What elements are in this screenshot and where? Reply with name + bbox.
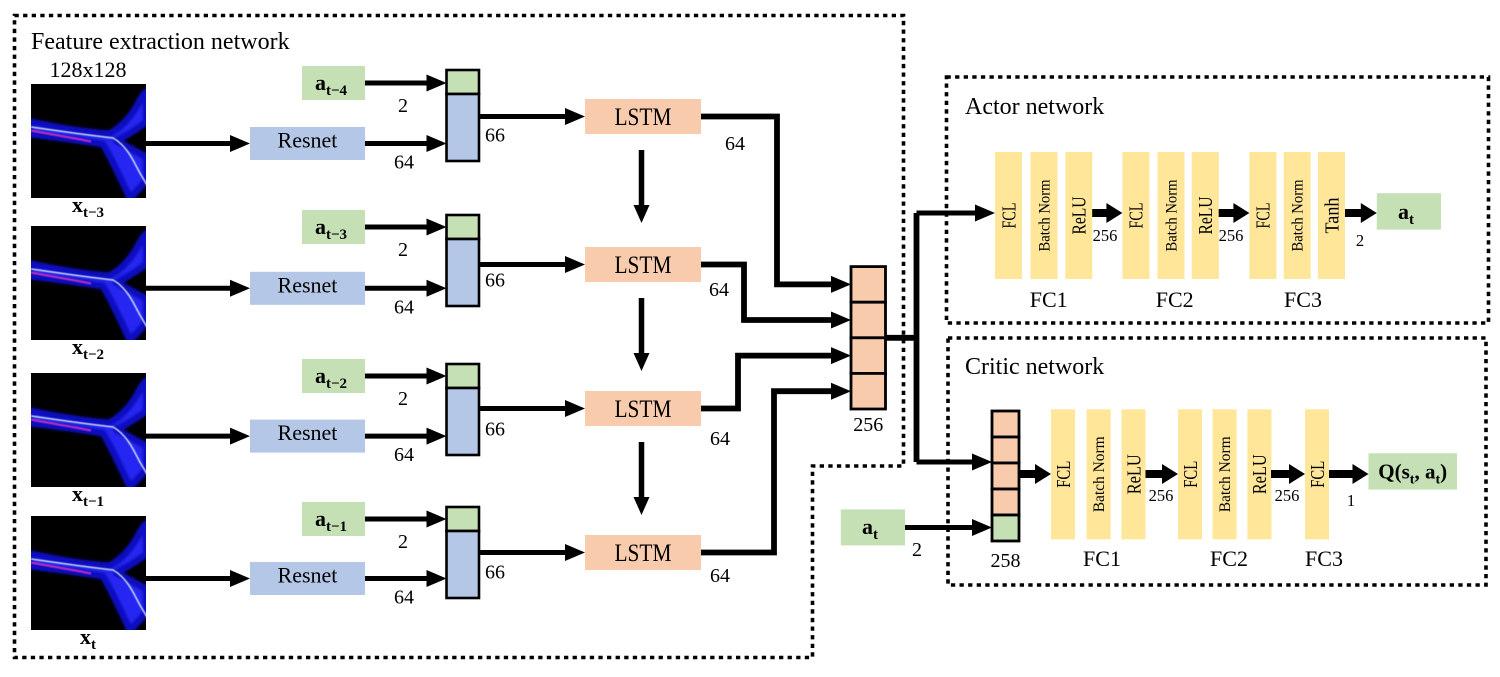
arrow a_t to critic stack green cell — [905, 519, 992, 536]
svg-text:258: 258 — [991, 550, 1021, 572]
svg-text:FCL: FCL — [1180, 461, 1202, 488]
critic layer bar 1 (FCL) — [1051, 409, 1075, 539]
dashed box: Critic network — [948, 338, 1486, 585]
box a_t-2 (green action input) — [302, 359, 365, 393]
box LSTM 4 — [585, 535, 701, 570]
svg-text:64: 64 — [394, 587, 414, 609]
svg-text:2: 2 — [398, 531, 408, 553]
wire LSTM 1 output to state stack cell 1 — [701, 117, 834, 285]
svg-text:2: 2 — [912, 539, 922, 561]
arrow LSTM 1 to LSTM 2 — [634, 150, 650, 223]
svg-text:128x128: 128x128 — [50, 57, 127, 82]
box a_t-1 (green action input) — [302, 502, 365, 536]
actor layer bar 9 (Tanh) — [1318, 152, 1345, 279]
arrow LSTM 2 to LSTM 3 — [634, 298, 650, 371]
box LSTM 3 — [585, 391, 701, 426]
actor layer bar 3 (ReLU) — [1065, 152, 1092, 279]
svg-text:Resnet: Resnet — [278, 128, 338, 153]
concat bar 2 (2+64=66 vector) — [447, 215, 480, 306]
svg-text:FCL: FCL — [1053, 461, 1075, 488]
state stack 256 (4 cells) — [851, 267, 886, 409]
arrow x_t to Resnet 4 — [146, 570, 250, 587]
svg-text:ReLU: ReLU — [1123, 454, 1145, 494]
svg-text:64: 64 — [725, 133, 745, 155]
svg-text:1: 1 — [1347, 491, 1355, 510]
arrow critic ReLU1 to FC2 — [1146, 464, 1179, 484]
svg-text:LSTM: LSTM — [615, 396, 672, 423]
critic layer bar 4 (FCL) — [1178, 409, 1202, 539]
input image x_t (128x128 vessel frame) — [31, 516, 147, 630]
dashed box: Feature extraction network (L-shaped outline) — [15, 16, 904, 658]
svg-text:Feature extraction network: Feature extraction network — [31, 29, 290, 55]
arrow critic stack to FC1 — [1019, 464, 1051, 484]
critic input stack 258 (4 orange + 1 green cells) — [992, 411, 1019, 541]
critic layer bar 3 (ReLU) — [1122, 409, 1146, 539]
actor layer bar 5 (Batch Norm) — [1158, 152, 1185, 279]
box Resnet 3 — [250, 420, 365, 453]
arrow concat bar 4 to LSTM 4 — [479, 544, 585, 561]
svg-text:256: 256 — [1149, 486, 1174, 505]
box a_t-4 (green action input) — [302, 66, 365, 100]
arrow Resnet 3 to concat bar 3 — [365, 428, 447, 445]
arrow a_t-3 to concat bar 2 — [365, 219, 447, 236]
arrow LSTM 3 to LSTM 4 — [634, 442, 650, 515]
svg-text:64: 64 — [709, 279, 729, 301]
actor layer bar 2 (Batch Norm) — [1031, 152, 1058, 279]
svg-text:66: 66 — [485, 419, 505, 441]
box Resnet 4 — [250, 562, 365, 595]
concat bar 1 (2+64=66 vector) — [447, 70, 480, 161]
svg-text:FC2: FC2 — [1210, 546, 1248, 571]
arrow critic ReLU2 to FC3 — [1271, 464, 1305, 484]
box LSTM 2 — [585, 247, 701, 282]
wire state stack to actor/critic branch — [886, 213, 917, 462]
svg-text:LSTM: LSTM — [615, 104, 672, 131]
dashed box: Actor network — [947, 77, 1489, 323]
input image x_t-3 (128x128 vessel frame) — [31, 84, 147, 198]
arrow actor ReLU2 to FC3 — [1219, 203, 1250, 223]
arrow a_t-2 to concat bar 3 — [365, 368, 447, 385]
arrow x_t-1 to Resnet 3 — [146, 428, 250, 445]
svg-text:FC1: FC1 — [1030, 287, 1068, 312]
actor layer bar 1 (FCL) — [995, 152, 1022, 279]
svg-text:Critic network: Critic network — [965, 354, 1104, 380]
actor layer bar 6 (ReLU) — [1192, 152, 1219, 279]
svg-text:FCL: FCL — [1307, 461, 1329, 488]
svg-text:Batch Norm: Batch Norm — [1163, 179, 1180, 252]
box a_t-3 (green action input) — [302, 210, 365, 244]
arrow concat bar 2 to LSTM 2 — [479, 256, 585, 273]
svg-text:LSTM: LSTM — [615, 540, 672, 567]
svg-text:Batch Norm: Batch Norm — [1217, 436, 1234, 513]
arrow a_t-1 to concat bar 4 — [365, 511, 447, 528]
critic layer bar 6 (ReLU) — [1247, 409, 1271, 539]
svg-text:Resnet: Resnet — [278, 563, 338, 588]
critic layer bar 2 (Batch Norm) — [1087, 409, 1111, 539]
svg-text:256: 256 — [1093, 226, 1118, 245]
box LSTM 1 — [585, 99, 701, 134]
actor layer bar 8 (Batch Norm) — [1284, 152, 1311, 279]
svg-text:2: 2 — [398, 239, 408, 261]
arrow critic FC3 to Q output — [1329, 464, 1369, 484]
svg-text:64: 64 — [394, 296, 414, 318]
box Q(s_t, a_t) (critic output, green) — [1369, 453, 1458, 489]
svg-text:Actor network: Actor network — [965, 94, 1104, 120]
svg-text:ReLU: ReLU — [1069, 196, 1091, 234]
input image x_t-2 (128x128 vessel frame) — [31, 226, 147, 340]
svg-text:66: 66 — [485, 562, 505, 584]
box Resnet 1 — [250, 127, 365, 160]
svg-text:ReLU: ReLU — [1195, 196, 1217, 234]
svg-text:64: 64 — [394, 152, 414, 174]
svg-text:64: 64 — [710, 428, 730, 450]
svg-text:Resnet: Resnet — [278, 420, 338, 445]
arrow Resnet 2 to concat bar 2 — [365, 280, 447, 297]
svg-text:Tanh: Tanh — [1321, 198, 1343, 234]
svg-text:2: 2 — [1356, 231, 1364, 250]
concat bar 4 (2+64=66 vector) — [447, 507, 480, 598]
critic layer bar 5 (Batch Norm) — [1213, 409, 1237, 539]
svg-text:256: 256 — [1275, 486, 1300, 505]
svg-text:66: 66 — [485, 125, 505, 147]
svg-text:FC2: FC2 — [1156, 287, 1194, 312]
box Resnet 2 — [250, 272, 365, 305]
box a_t (critic action input, green) — [841, 509, 905, 545]
svg-text:FC3: FC3 — [1305, 546, 1343, 571]
svg-text:2: 2 — [398, 388, 408, 410]
actor layer bar 7 (FCL) — [1249, 152, 1276, 279]
svg-text:Batch Norm: Batch Norm — [1036, 179, 1053, 252]
svg-text:FCL: FCL — [1253, 203, 1275, 229]
svg-text:256: 256 — [853, 414, 883, 436]
svg-text:64: 64 — [710, 565, 730, 587]
wire LSTM 3 output to state stack cell 3 — [701, 356, 834, 409]
wire LSTM 2 output to state stack cell 2 — [701, 265, 834, 321]
svg-text:2: 2 — [398, 95, 408, 117]
svg-text:64: 64 — [394, 444, 414, 466]
input image x_t-1 (128x128 vessel frame) — [31, 373, 147, 487]
arrow x_t-2 to Resnet 2 — [146, 280, 250, 297]
svg-text:Resnet: Resnet — [278, 272, 338, 297]
arrow actor Tanh to a_t — [1345, 203, 1377, 223]
arrow Resnet 1 to concat bar 1 — [365, 135, 447, 152]
svg-text:LSTM: LSTM — [615, 252, 672, 279]
svg-text:Batch Norm: Batch Norm — [1290, 179, 1307, 252]
arrow branch to actor FC1 — [917, 205, 996, 222]
actor layer bar 4 (FCL) — [1122, 152, 1149, 279]
arrow Resnet 4 to concat bar 4 — [365, 570, 447, 587]
arrow branch to critic stack — [917, 454, 993, 471]
svg-text:256: 256 — [1219, 226, 1244, 245]
box a_t (actor output, green) — [1377, 193, 1441, 229]
wire LSTM 4 output to state stack cell 4 — [701, 391, 834, 552]
svg-text:Batch Norm: Batch Norm — [1091, 436, 1108, 513]
svg-text:FC3: FC3 — [1284, 287, 1322, 312]
svg-text:FCL: FCL — [998, 203, 1020, 229]
svg-text:FC1: FC1 — [1083, 546, 1121, 571]
arrow concat bar 1 to LSTM 1 — [479, 108, 585, 125]
svg-text:FCL: FCL — [1126, 203, 1148, 229]
svg-text:66: 66 — [485, 270, 505, 292]
arrow actor ReLU1 to FC2 — [1092, 203, 1122, 223]
concat bar 3 (2+64=66 vector) — [447, 364, 480, 455]
arrow x_t-3 to Resnet 1 — [146, 135, 250, 152]
arrow concat bar 3 to LSTM 3 — [479, 400, 585, 417]
critic layer bar 7 (FCL) — [1305, 409, 1329, 539]
svg-text:ReLU: ReLU — [1249, 454, 1271, 494]
arrow a_t-4 to concat bar 1 — [365, 75, 447, 92]
